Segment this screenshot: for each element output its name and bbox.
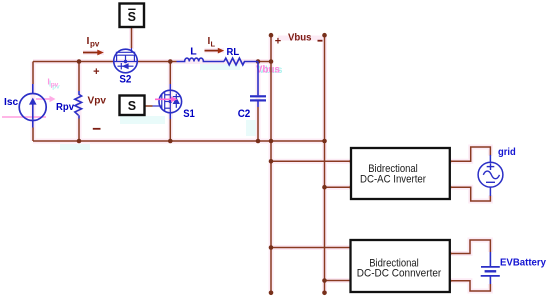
ghost line across Isc (faded print echo): [2, 116, 46, 118]
wire left DC bus (Vbus +) vertical: [270, 35, 272, 293]
svg-text:+: +: [93, 66, 99, 78]
label Ipv: [87, 35, 100, 49]
node right bus bottom end: [322, 291, 327, 296]
wire converter input top: [271, 247, 351, 249]
node right bus top end: [322, 33, 327, 38]
svg-text:S2: S2: [119, 73, 131, 85]
current source Isc: [19, 84, 46, 128]
wire converter input bottom: [325, 280, 352, 282]
node left bus top end: [269, 33, 274, 38]
port U2 out-: [448, 279, 451, 282]
port U2 out+: [448, 252, 451, 255]
block U2 Bidrectional DC-DC Connverter: [351, 240, 450, 292]
wire right DC bus (Vbus -) vertical: [324, 35, 326, 293]
svg-text:grid: grid: [498, 146, 516, 158]
capacitor C2: [250, 62, 266, 108]
ghost label Ipv (faded print echo): [47, 76, 60, 90]
svg-text:pv: pv: [51, 81, 59, 88]
wire converter to battery top: [450, 240, 491, 254]
svg-text:Vbus: Vbus: [288, 32, 312, 44]
ghost arrow over S1 (faded print echo): [155, 96, 178, 102]
svg-text:Vbus: Vbus: [256, 65, 280, 76]
junction Rpv bottom: [77, 139, 82, 144]
wire Rpv upper lead: [78, 62, 80, 92]
port U1 out-: [448, 186, 451, 189]
arrow Ipv current direction: [83, 50, 104, 56]
junction left bus to inverter: [269, 159, 274, 164]
wire top rail: S2 source to inductor L: [137, 61, 176, 63]
svg-text:RL: RL: [227, 46, 240, 58]
junction bottom rail to left bus: [269, 139, 274, 144]
AC source grid: [478, 155, 503, 196]
junction C2 top at top rail: [256, 59, 261, 64]
wire S1 drain branch from top rail: [169, 62, 171, 85]
junction S1 source at bottom rail: [168, 139, 173, 144]
wire inverter input top: [271, 160, 351, 162]
svg-text:S: S: [128, 99, 136, 113]
wire Rpv lower lead: [78, 119, 80, 142]
wire S1 source branch to bottom rail: [169, 119, 171, 141]
wire C2 lower lead to bottom rail: [257, 107, 259, 141]
svg-text:+: +: [275, 36, 281, 48]
ghost arrow at Isc (faded print echo): [36, 96, 56, 102]
inductor L: [177, 58, 225, 61]
mosfet S1: [153, 84, 182, 119]
svg-text:L: L: [211, 40, 216, 49]
wire top rail left: node PV+ to S2 drain: [33, 61, 114, 63]
wire left branch lower: Isc to bottom rail: [32, 128, 34, 142]
gate signal box NOT-S (S-bar): [120, 4, 145, 28]
wire top rail: RL node to left bus: [258, 61, 271, 63]
svg-text:C2: C2: [238, 108, 251, 120]
block U1 Bidrectional DC-AC Inverter: [351, 148, 450, 199]
svg-text:S: S: [128, 10, 136, 24]
junction bottom rail to right bus: [322, 139, 327, 144]
junction Rpv top: [77, 59, 82, 64]
svg-text:Rpv: Rpv: [56, 101, 74, 113]
svg-text:DC-AC Inverter: DC-AC Inverter: [360, 174, 426, 186]
svg-text:I: I: [47, 76, 49, 86]
resistor Rpv: [75, 91, 82, 119]
port U2 in+: [349, 246, 352, 249]
battery EVBattery: [481, 252, 500, 284]
wire left branch upper: top rail to Isc: [32, 62, 34, 85]
svg-text:Isc: Isc: [4, 96, 18, 108]
mosfet S2: [114, 48, 138, 73]
gate signal box S: [120, 96, 145, 116]
wire bottom rail: node PV- to right bus: [33, 140, 325, 142]
junction left bus to converter: [269, 245, 274, 250]
wire S2 gate from NOT-S box: [131, 27, 133, 48]
wire inverter input bottom: [325, 186, 352, 188]
port U1 out+: [448, 160, 451, 163]
svg-text:DC-DC Connverter: DC-DC Connverter: [357, 267, 442, 279]
svg-text:S1: S1: [183, 108, 195, 120]
node left bus bottom end: [269, 291, 274, 296]
arrow IL current direction: [205, 48, 225, 54]
wire inverter to grid bottom: [450, 187, 491, 201]
ghost label Vbus (faded print echo): [256, 65, 283, 76]
label IL: [208, 36, 216, 49]
minus sign of Vpv: [93, 128, 101, 130]
svg-text:Vpv: Vpv: [88, 95, 107, 107]
port U1 in+: [349, 160, 352, 163]
wire S1 gate from S box: [145, 105, 153, 107]
junction right bus to inverter: [322, 185, 327, 190]
junction S1 drain at top rail: [168, 59, 173, 64]
port U1 in-: [349, 186, 352, 189]
minus sign of Vbus: [318, 40, 323, 42]
svg-text:pv: pv: [90, 40, 100, 49]
junction C2 bottom at bottom rail: [256, 139, 261, 144]
junction right bus to converter: [322, 278, 327, 283]
resistor RL: [224, 58, 258, 65]
svg-text:EVBattery: EVBattery: [500, 257, 546, 268]
junction top rail to left bus: [269, 59, 274, 64]
svg-text:L: L: [190, 46, 197, 58]
wire inverter to grid top: [450, 147, 491, 161]
port U2 in-: [349, 279, 352, 282]
wire converter to battery bottom: [450, 281, 491, 291]
